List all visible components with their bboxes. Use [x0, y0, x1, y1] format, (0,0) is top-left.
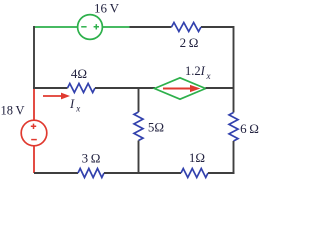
voltage source U1 16V	[78, 15, 103, 40]
wire left vertical red (above 18V source)	[33, 88, 35, 121]
svg-text:6 Ω: 6 Ω	[240, 121, 259, 136]
wire bottom middle segment	[104, 172, 181, 174]
resistor R 1ohm	[181, 169, 208, 178]
svg-text:3 Ω: 3 Ω	[82, 151, 101, 166]
wire middle center segment	[95, 87, 155, 89]
svg-text:x: x	[75, 103, 80, 113]
plus sign of 16V	[94, 24, 99, 29]
svg-text:x: x	[206, 71, 211, 81]
resistor R 3ohm	[78, 169, 104, 178]
wire bottom right segment	[208, 172, 235, 174]
minus sign of 18V	[31, 139, 37, 141]
wire middle left segment	[33, 87, 68, 89]
resistor R 4ohm	[68, 84, 95, 93]
wire right vertical lower	[233, 141, 235, 173]
svg-text:1.2I: 1.2I	[185, 64, 206, 78]
svg-text:4Ω: 4Ω	[71, 66, 87, 81]
resistor R 6ohm	[229, 113, 238, 142]
wire top green (left of 16V source)	[34, 26, 78, 28]
wire middle vertical branch upper	[138, 87, 140, 112]
voltage source U2 18V	[21, 120, 47, 146]
minus sign of 16V	[81, 26, 86, 28]
wire top green (right of 16V source)	[102, 26, 130, 28]
svg-text:16 V: 16 V	[94, 1, 120, 16]
resistor R 5ohm	[134, 112, 143, 141]
svg-text:18 V: 18 V	[0, 103, 24, 117]
arrow inside dependent source	[163, 88, 191, 90]
resistor R 2ohm	[172, 23, 202, 32]
wire left vertical red (below 18V source)	[33, 146, 35, 173]
current arrow Ix	[43, 95, 63, 97]
wire bottom left segment	[34, 172, 78, 174]
svg-text:2 Ω: 2 Ω	[180, 35, 199, 50]
wire top-right corner	[201, 27, 234, 113]
wire top dark to 2-ohm	[130, 26, 172, 28]
dependent source diamond 1.2Ix	[155, 78, 206, 99]
plus sign of 18V	[31, 124, 36, 129]
svg-text:5Ω: 5Ω	[148, 120, 164, 135]
svg-text:1Ω: 1Ω	[189, 150, 205, 165]
wire left vertical dark	[33, 26, 35, 89]
wire middle right segment	[206, 87, 235, 89]
wire middle vertical branch lower	[138, 141, 140, 174]
svg-text:I: I	[69, 97, 75, 111]
